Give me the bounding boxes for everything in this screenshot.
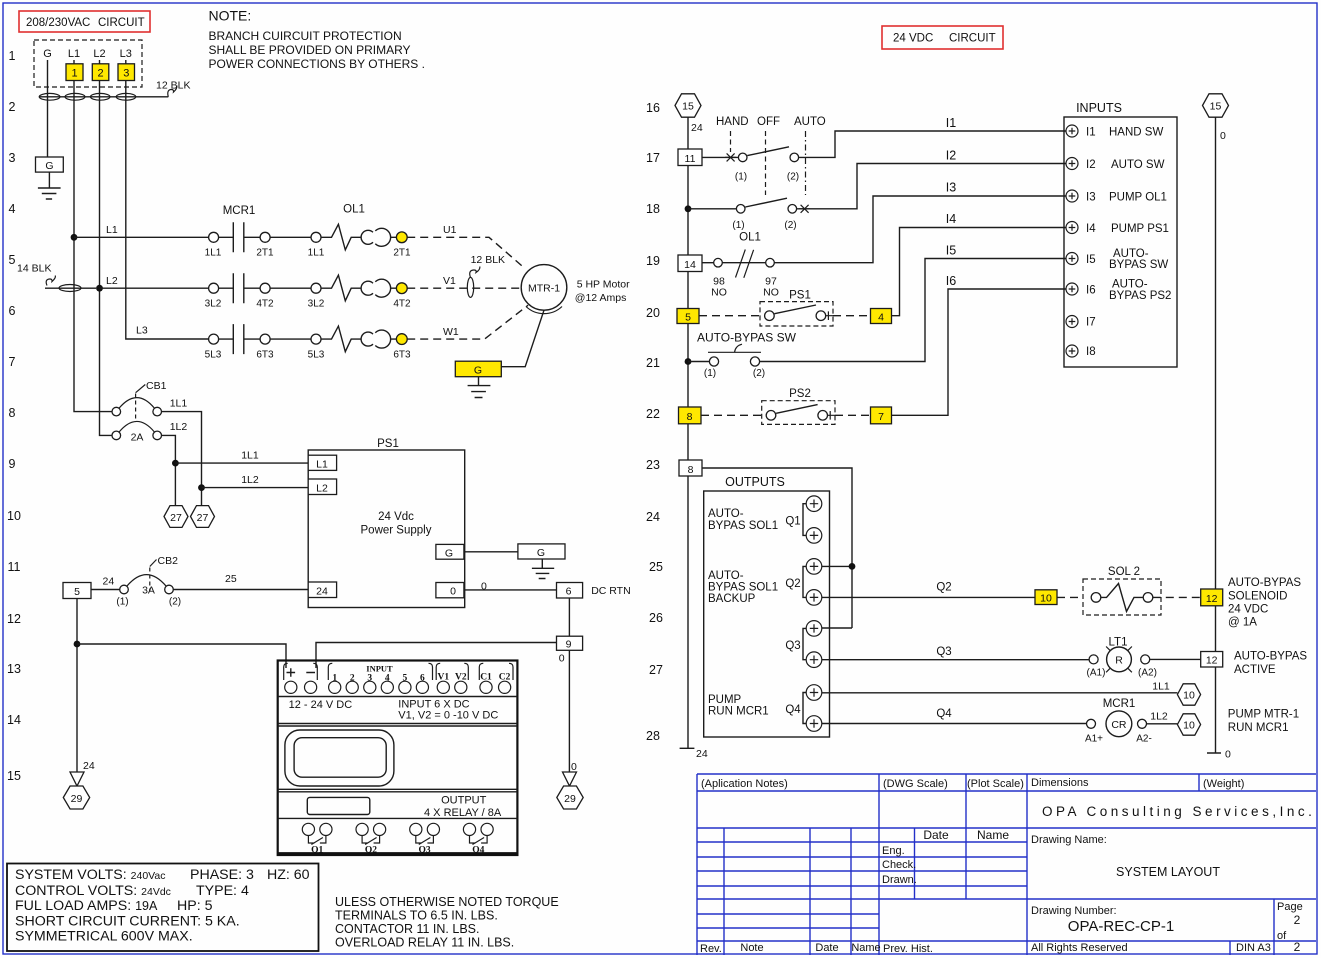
- pilot light LT1: [822, 637, 1308, 679]
- svg-text:11: 11: [8, 560, 21, 574]
- svg-text:7: 7: [878, 411, 884, 423]
- svg-text:22: 22: [646, 407, 660, 421]
- svg-text:5: 5: [403, 674, 408, 684]
- svg-text:I3: I3: [1086, 192, 1096, 204]
- svg-text:13: 13: [7, 662, 21, 676]
- svg-text:ULESS OTHERWISE NOTED TORQUE: ULESS OTHERWISE NOTED TORQUE: [335, 895, 559, 909]
- node box 12: [1201, 652, 1223, 668]
- svg-text:12: 12: [7, 612, 21, 626]
- svg-text:(A1): (A1): [1087, 668, 1106, 679]
- solenoid SOL2 circuit: [822, 566, 1302, 629]
- svg-text:24 VDC: 24 VDC: [893, 33, 933, 45]
- ground symbol: [38, 172, 61, 199]
- sheet ref hexagon 15: [675, 94, 701, 117]
- svg-text:Q4: Q4: [936, 708, 952, 720]
- svg-text:27: 27: [170, 512, 182, 524]
- terminal 2: [92, 64, 109, 81]
- terminal 7 (yellow): [871, 407, 892, 424]
- terminal G: [436, 544, 464, 559]
- svg-text:17: 17: [646, 151, 660, 165]
- svg-text:Name: Name: [851, 942, 880, 954]
- power supply PS1: [308, 438, 630, 809]
- system info box bottom-left: [7, 864, 319, 952]
- svg-text:8: 8: [9, 406, 16, 420]
- svg-text:5L3: 5L3: [308, 350, 325, 361]
- svg-text:AUTO SW: AUTO SW: [1111, 159, 1165, 171]
- output Q4: [803, 693, 806, 724]
- svg-text:NOTE:: NOTE:: [209, 8, 252, 24]
- svg-text:6T3: 6T3: [393, 350, 411, 361]
- svg-text:29: 29: [71, 793, 83, 805]
- svg-text:CIRCUIT: CIRCUIT: [98, 17, 145, 29]
- svg-text:16: 16: [646, 101, 660, 115]
- svg-text:I5: I5: [946, 244, 956, 258]
- svg-text:(Weight): (Weight): [1203, 778, 1244, 790]
- svg-text:15: 15: [682, 101, 694, 113]
- svg-text:8: 8: [688, 464, 694, 476]
- svg-text:BRANCH CUIRCUIT PROTECTION: BRANCH CUIRCUIT PROTECTION: [209, 29, 402, 43]
- svg-text:19: 19: [646, 254, 660, 268]
- relay output Q2: [356, 823, 368, 835]
- svg-text:Eng.: Eng.: [882, 845, 905, 857]
- svg-text:10: 10: [1183, 690, 1195, 702]
- ground bar G (yellow): [455, 361, 501, 377]
- svg-text:PS1: PS1: [789, 290, 811, 302]
- svg-text:27: 27: [197, 512, 209, 524]
- svg-text:Q4: Q4: [785, 704, 801, 716]
- wire I6: [892, 289, 1067, 415]
- svg-text:R: R: [1115, 655, 1123, 667]
- selector switch HAND-OFF-AUTO: [678, 116, 1066, 231]
- sheet ref hexagon 10 a: [1177, 684, 1200, 705]
- svg-text:L1: L1: [68, 48, 80, 60]
- svg-text:NO: NO: [711, 287, 727, 299]
- 12 BLK flag motor: [467, 277, 473, 297]
- svg-text:BYPAS SOL1: BYPAS SOL1: [708, 582, 778, 594]
- svg-text:HZ: 60: HZ: 60: [267, 867, 310, 883]
- svg-text:1L2: 1L2: [1150, 711, 1168, 723]
- svg-text:OPA-REC-CP-1: OPA-REC-CP-1: [1068, 918, 1174, 935]
- svg-text:PS1: PS1: [377, 438, 399, 450]
- bus wire row2 with marker ellipses: [39, 96, 168, 98]
- wire 1L2 to PS1: [202, 487, 309, 489]
- terminal 24: [308, 582, 336, 598]
- selector AUTO-BYPAS SW: [685, 244, 1066, 379]
- svg-text:21: 21: [646, 356, 660, 370]
- hexagon 27 b: [191, 506, 215, 528]
- overload element row2: [321, 275, 362, 301]
- svg-text:L3: L3: [120, 48, 132, 60]
- svg-text:I4: I4: [1086, 223, 1096, 235]
- svg-text:Q3: Q3: [785, 640, 800, 652]
- svg-text:2: 2: [1294, 913, 1301, 927]
- svg-text:OL1: OL1: [343, 204, 365, 216]
- svg-text:Drawing Number:: Drawing Number:: [1031, 905, 1117, 917]
- wire I2: [797, 164, 1066, 209]
- svg-text:5: 5: [9, 253, 16, 267]
- svg-text:10: 10: [7, 509, 21, 523]
- svg-text:PS2: PS2: [789, 388, 811, 400]
- node junction 24: [74, 641, 81, 648]
- svg-text:24 Vdc: 24 Vdc: [378, 511, 414, 523]
- svg-text:12 BLK: 12 BLK: [471, 254, 505, 266]
- ground symbol motor: [468, 377, 491, 398]
- svg-text:7: 7: [9, 355, 16, 369]
- svg-text:OVERLOAD RELAY 11 IN. LBS.: OVERLOAD RELAY 11 IN. LBS.: [335, 936, 514, 950]
- svg-text:10: 10: [1040, 593, 1052, 605]
- svg-text:PHASE: 3: PHASE: 3: [190, 867, 254, 883]
- svg-text:BACKUP: BACKUP: [708, 593, 756, 605]
- relay output Q1: [302, 823, 314, 835]
- svg-text:AUTO-: AUTO-: [708, 570, 744, 582]
- svg-text:1: 1: [9, 49, 16, 63]
- svg-text:15: 15: [1210, 101, 1222, 113]
- svg-text:W1: W1: [443, 326, 459, 338]
- svg-text:L3: L3: [136, 325, 148, 337]
- wire 9 down to sheet ref: [568, 650, 570, 772]
- svg-text:L2: L2: [106, 275, 118, 287]
- svg-text:1L1: 1L1: [1152, 681, 1170, 693]
- svg-text:(1): (1): [116, 597, 128, 608]
- 12 BLK flag: [168, 86, 177, 97]
- svg-text:20: 20: [646, 306, 660, 320]
- svg-text:24: 24: [103, 576, 115, 588]
- svg-text:L1: L1: [106, 224, 118, 236]
- node L2 junction: [96, 285, 103, 292]
- svg-text:HAND: HAND: [716, 116, 749, 128]
- svg-text:Power Supply: Power Supply: [361, 525, 432, 537]
- svg-text:of: of: [1277, 930, 1287, 942]
- terminal pocket brackets: [284, 663, 318, 680]
- terminal L1: [308, 455, 336, 470]
- arrow down right: [563, 772, 577, 786]
- svg-text:24: 24: [646, 510, 660, 524]
- svg-text:Q3: Q3: [419, 846, 431, 856]
- phase rail L1: [74, 60, 112, 412]
- terminal 3: [118, 64, 135, 81]
- svg-text:I3: I3: [946, 181, 956, 195]
- svg-text:PUMP MTR-1: PUMP MTR-1: [1228, 709, 1299, 721]
- svg-text:@ 1A: @ 1A: [1228, 617, 1257, 629]
- svg-text:208/230VAC: 208/230VAC: [26, 17, 90, 29]
- svg-text:6: 6: [9, 304, 16, 318]
- wire 6 to 9: [568, 598, 570, 636]
- output Q3: [803, 628, 806, 659]
- wire CB2 to PS1 24: [173, 589, 308, 591]
- svg-text:1L2: 1L2: [170, 421, 188, 433]
- svg-text:4T2: 4T2: [393, 299, 411, 310]
- svg-text:OPA Consulting Services,Inc.: OPA Consulting Services,Inc.: [1042, 804, 1315, 819]
- node box 14: [678, 255, 702, 272]
- svg-text:L2: L2: [316, 483, 328, 495]
- svg-text:Q4: Q4: [472, 846, 484, 856]
- svg-text:3A: 3A: [142, 585, 155, 597]
- svg-text:SYMMETRICAL 600V MAX.: SYMMETRICAL 600V MAX.: [15, 929, 193, 945]
- svg-text:PUMP: PUMP: [708, 694, 742, 706]
- svg-text:25: 25: [649, 560, 663, 574]
- svg-text:RUN MCR1: RUN MCR1: [1228, 722, 1289, 734]
- svg-text:0: 0: [450, 586, 456, 598]
- overload element row3: [321, 326, 362, 352]
- svg-text:3L2: 3L2: [205, 299, 222, 310]
- node box 6 DC RTN: [557, 583, 583, 599]
- svg-text:10: 10: [1183, 720, 1195, 732]
- svg-text:SYSTEM LAYOUT: SYSTEM LAYOUT: [1116, 865, 1220, 879]
- wire PS1 0 to box 6: [464, 589, 557, 591]
- node box 8 row23: [679, 460, 855, 628]
- phase rail L2: [100, 60, 113, 435]
- svg-text:I1: I1: [1086, 127, 1096, 139]
- svg-text:All Rights Reserved: All Rights Reserved: [1031, 942, 1128, 954]
- svg-text:5 HP Motor: 5 HP Motor: [577, 279, 630, 291]
- inputs block: [1064, 101, 1177, 367]
- svg-text:G: G: [45, 160, 53, 172]
- svg-text:26: 26: [649, 611, 663, 625]
- svg-text:29: 29: [564, 793, 576, 805]
- svg-text:C1: C1: [480, 673, 492, 683]
- svg-text:HAND SW: HAND SW: [1109, 127, 1163, 139]
- node box 11: [678, 149, 702, 166]
- node box 9: [557, 636, 583, 650]
- svg-text:1L1: 1L1: [205, 248, 222, 259]
- wire I1: [799, 131, 1066, 157]
- 14 BLK flag: [45, 287, 96, 289]
- terminal 0: [436, 583, 464, 598]
- wire 24 to PLC plus: [77, 644, 286, 668]
- svg-text:C2: C2: [499, 673, 511, 683]
- svg-text:BYPAS SW: BYPAS SW: [1109, 259, 1168, 271]
- svg-text:(1): (1): [732, 220, 744, 231]
- hexagon 29 right: [557, 786, 583, 809]
- svg-text:2: 2: [1294, 940, 1301, 954]
- svg-text:Date: Date: [923, 828, 949, 842]
- svg-text:(Aplication Notes): (Aplication Notes): [701, 778, 788, 790]
- deck 2: [685, 205, 692, 212]
- svg-text:I6: I6: [946, 274, 956, 288]
- svg-text:I7: I7: [1086, 317, 1096, 329]
- terminal 4 (yellow): [871, 309, 892, 324]
- wire L1 to MCR1: [74, 236, 208, 238]
- svg-text:Page: Page: [1277, 901, 1303, 913]
- svg-text:MCR1: MCR1: [223, 205, 256, 217]
- arrow down left: [70, 772, 84, 786]
- svg-text:Q2: Q2: [365, 846, 377, 856]
- input terminals I1-I8: [1066, 125, 1078, 137]
- svg-text:24: 24: [696, 748, 708, 760]
- svg-text:Check.: Check.: [882, 859, 916, 871]
- svg-text:SOL 2: SOL 2: [1108, 566, 1140, 578]
- button: [307, 797, 370, 814]
- terminal L2: [308, 479, 336, 495]
- svg-text:SHALL BE PROVIDED ON PRIMARY: SHALL BE PROVIDED ON PRIMARY: [209, 43, 411, 57]
- wire PS1 G to ground: [464, 551, 518, 553]
- svg-text:6: 6: [420, 674, 425, 684]
- svg-text:Drawing Name:: Drawing Name:: [1031, 834, 1107, 846]
- svg-text:ACTIVE: ACTIVE: [1234, 664, 1276, 676]
- terminal 12 (yellow): [1201, 589, 1223, 606]
- outputs block: [704, 475, 830, 737]
- svg-text:AUTO-BYPAS: AUTO-BYPAS: [1228, 577, 1301, 589]
- svg-text:23: 23: [646, 458, 660, 472]
- G terminal box: [36, 157, 64, 172]
- circuit breaker CB2: [63, 555, 557, 809]
- svg-text:Q1: Q1: [785, 516, 800, 528]
- svg-text:G: G: [445, 548, 453, 560]
- rail segments: [687, 117, 689, 748]
- MCR1 contact row1: [205, 222, 525, 268]
- relay output Q4: [463, 823, 475, 835]
- svg-text:(2): (2): [784, 220, 796, 231]
- svg-text:AUTO-BYPAS: AUTO-BYPAS: [1234, 651, 1307, 663]
- svg-text:2T1: 2T1: [256, 248, 274, 259]
- svg-text:24: 24: [691, 122, 703, 134]
- svg-text:I2: I2: [1086, 159, 1096, 171]
- svg-text:5: 5: [74, 586, 80, 598]
- svg-text:(2): (2): [787, 172, 799, 183]
- svg-text:Name: Name: [977, 828, 1009, 842]
- wire CB1 pole1 out: [162, 412, 202, 506]
- svg-text:(A2): (A2): [1138, 668, 1157, 679]
- svg-text:(1): (1): [735, 172, 747, 183]
- svg-text:25: 25: [225, 573, 237, 585]
- sheet ref hexagon 10 b: [1177, 714, 1200, 735]
- ground bar G box: [518, 544, 565, 559]
- motor MTR-1: [455, 265, 630, 398]
- svg-text:2A: 2A: [131, 432, 144, 444]
- wire Q2: [822, 596, 1035, 598]
- svg-text:24 VDC: 24 VDC: [1228, 604, 1268, 616]
- node box 5: [63, 583, 91, 599]
- svg-text:OFF: OFF: [757, 116, 780, 128]
- svg-text:AUTO: AUTO: [794, 116, 826, 128]
- incoming terminal dashed box: [34, 40, 142, 87]
- node 1L2: [198, 484, 205, 491]
- svg-text:4T2: 4T2: [256, 299, 274, 310]
- phase rail L3: [126, 60, 208, 339]
- svg-text:0: 0: [559, 653, 565, 665]
- svg-text:POWER CONNECTIONS BY OTHERS .: POWER CONNECTIONS BY OTHERS .: [209, 57, 425, 71]
- svg-text:12 - 24 V DC: 12 - 24 V DC: [289, 699, 353, 711]
- svg-text:2: 2: [9, 100, 16, 114]
- svg-text:(DWG Scale): (DWG Scale): [883, 778, 948, 790]
- terminal 5 (yellow): [677, 309, 699, 324]
- svg-text:INPUT: INPUT: [366, 664, 393, 674]
- svg-text:1: 1: [71, 68, 77, 80]
- wire I5: [760, 259, 1066, 362]
- svg-text:0: 0: [571, 761, 577, 773]
- overload aux OL1: [678, 181, 1066, 299]
- input terminals: [285, 681, 297, 693]
- svg-text:6: 6: [566, 586, 572, 598]
- node L1 junction: [71, 234, 78, 241]
- svg-text:CB1: CB1: [146, 380, 167, 392]
- wire Q3: [822, 659, 1089, 661]
- svg-text:1L1: 1L1: [170, 397, 188, 409]
- svg-text:A2-: A2-: [1136, 734, 1152, 745]
- svg-text:@12 Amps: @12 Amps: [575, 292, 627, 304]
- hexagon 27 a: [164, 506, 188, 528]
- svg-text:FUL LOAD AMPS: 19A: FUL LOAD AMPS: 19A: [15, 898, 158, 914]
- svg-text:V1, V2 = 0 -10 V DC: V1, V2 = 0 -10 V DC: [398, 710, 498, 722]
- svg-text:I6: I6: [1086, 285, 1096, 297]
- svg-text:I5: I5: [1086, 254, 1096, 266]
- svg-text:Q2: Q2: [936, 582, 951, 594]
- wire 1L1 to PS1: [175, 462, 308, 464]
- overload element row1: [321, 224, 362, 250]
- svg-text:3L2: 3L2: [308, 299, 325, 310]
- svg-text:Date: Date: [815, 942, 838, 954]
- svg-text:NO: NO: [763, 287, 779, 299]
- svg-text:4 X RELAY / 8A: 4 X RELAY / 8A: [424, 807, 502, 819]
- relay coil MCR1: [822, 681, 1299, 745]
- svg-text:Q1: Q1: [311, 846, 323, 856]
- wire 1L1: [822, 692, 1178, 694]
- svg-text:PUMP PS1: PUMP PS1: [1111, 223, 1169, 235]
- svg-text:DIN A3: DIN A3: [1236, 942, 1271, 954]
- svg-text:1L2: 1L2: [241, 474, 259, 486]
- svg-text:1L1: 1L1: [241, 450, 259, 462]
- hexagon 29 left: [63, 786, 89, 809]
- svg-text:SHORT CIRCUIT CURRENT: 5 KA.: SHORT CIRCUIT CURRENT: 5 KA.: [15, 914, 240, 930]
- svg-text:9: 9: [566, 639, 572, 651]
- wire 9 to PLC minus: [316, 643, 557, 669]
- svg-text:Q2: Q2: [785, 578, 800, 590]
- title block frame (blue lines): [697, 774, 1316, 941]
- svg-text:RUN MCR1: RUN MCR1: [708, 706, 769, 718]
- svg-text:I1: I1: [946, 116, 956, 130]
- svg-text:TERMINALS TO 6.5 IN. LBS.: TERMINALS TO 6.5 IN. LBS.: [335, 909, 498, 923]
- svg-text:V1: V1: [437, 673, 449, 683]
- svg-text:(1): (1): [704, 368, 716, 379]
- svg-text:G: G: [537, 547, 545, 559]
- svg-text:OUTPUT: OUTPUT: [441, 795, 487, 807]
- wire 8 to Q2/Q3 commons: [702, 468, 852, 628]
- svg-text:CB2: CB2: [158, 555, 179, 567]
- wire Q4: [822, 723, 1087, 725]
- terminal 8 (yellow): [679, 407, 702, 424]
- PLC smart relay unit: [278, 661, 518, 856]
- svg-text:15: 15: [7, 769, 21, 783]
- svg-text:9: 9: [9, 457, 16, 471]
- svg-text:24: 24: [316, 586, 328, 598]
- svg-text:AUTO-BYPAS SW: AUTO-BYPAS SW: [697, 331, 797, 345]
- svg-text:U1: U1: [443, 224, 457, 236]
- svg-text:24: 24: [83, 760, 95, 772]
- svg-text:BYPAS PS2: BYPAS PS2: [1109, 290, 1171, 302]
- MCR1 contact row3: [205, 305, 528, 360]
- wire 5 to CB2: [91, 589, 120, 591]
- svg-text:2: 2: [350, 674, 355, 684]
- svg-text:AUTO-: AUTO-: [1112, 279, 1148, 291]
- terminal 1: [66, 64, 83, 81]
- 0V right rail: [1203, 94, 1229, 117]
- output Q2: [803, 566, 806, 597]
- svg-text:V1: V1: [443, 275, 456, 287]
- svg-text:SOLENOID: SOLENOID: [1228, 591, 1287, 603]
- svg-text:0: 0: [481, 581, 487, 593]
- relay output Q3: [410, 823, 422, 835]
- MCR1 contact row2: [205, 254, 521, 310]
- svg-text:V2: V2: [455, 673, 467, 683]
- svg-text:1: 1: [332, 674, 337, 684]
- svg-text:14: 14: [684, 259, 696, 271]
- svg-text:28: 28: [646, 729, 660, 743]
- svg-text:4: 4: [9, 202, 16, 216]
- svg-text:0: 0: [1220, 130, 1226, 142]
- svg-text:12: 12: [1206, 655, 1218, 667]
- svg-text:5: 5: [685, 312, 691, 324]
- svg-text:TYPE: 4: TYPE: 4: [196, 883, 249, 899]
